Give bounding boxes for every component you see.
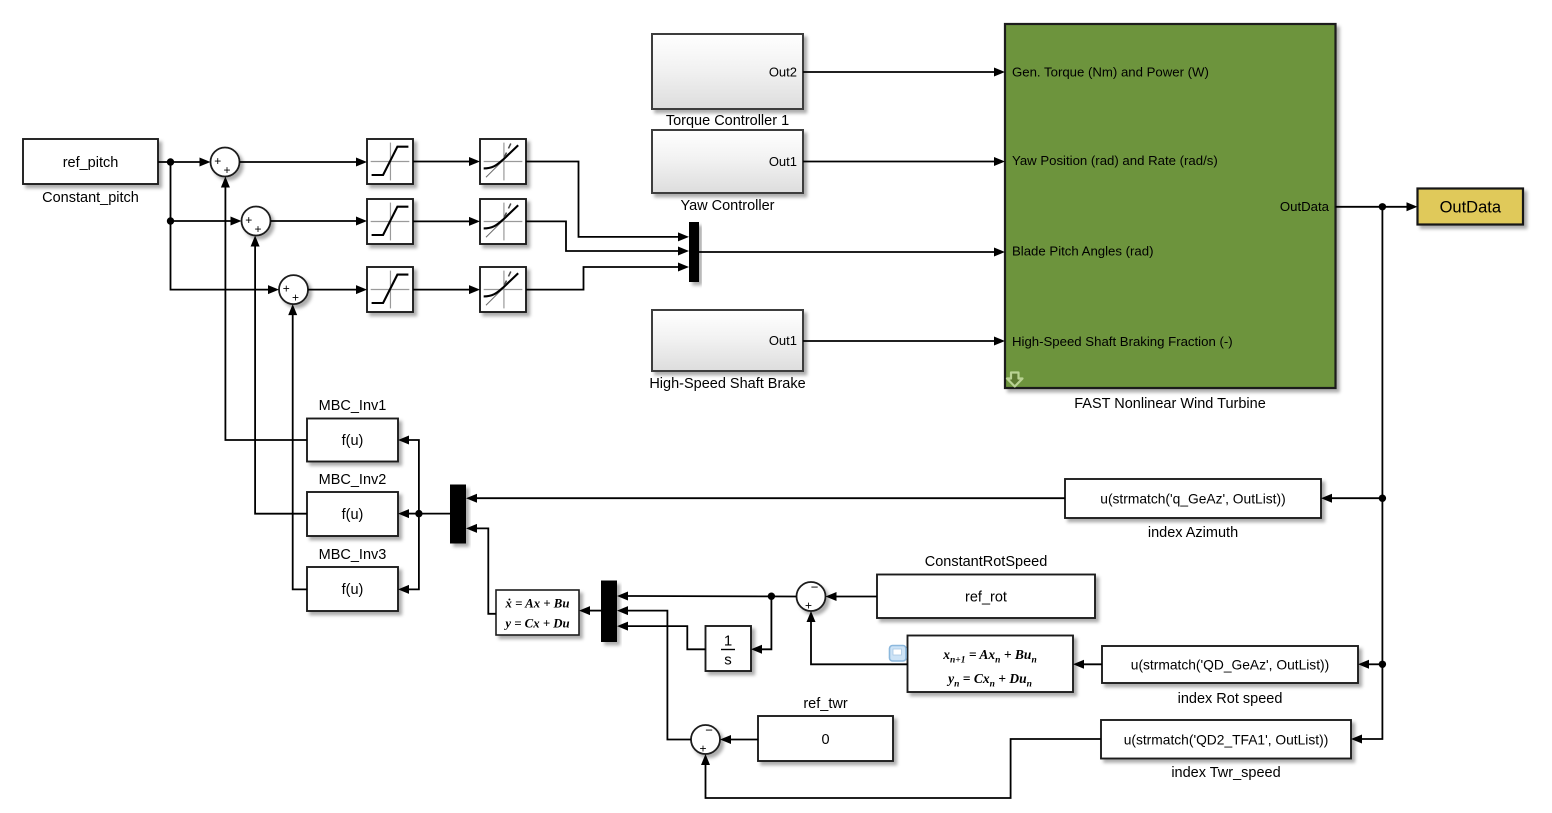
svg-text:1: 1 (724, 633, 732, 650)
mux Mux1 (689, 222, 699, 282)
wire branch to MBC_Inv3 input (398, 514, 419, 594)
wire Mux1 to FAST Blade Pitch input (699, 248, 1005, 257)
svg-text:+: + (292, 291, 299, 305)
wire DiscreteStateSpace to SumRot (807, 611, 908, 664)
junction SumRot out branch (768, 593, 775, 600)
svg-text:+: + (223, 163, 230, 177)
svg-text:y = Cx + Du: y = Cx + Du (503, 617, 569, 631)
wire ref_rot to SumRot (826, 592, 878, 601)
svg-text:index Rot speed: index Rot speed (1178, 691, 1283, 707)
fcn index Twr_speed (1101, 720, 1351, 781)
svg-text:+: + (699, 742, 706, 756)
fcn index Rot speed (1102, 646, 1358, 707)
wire SumRot to Mux3 (617, 592, 797, 601)
svg-text:−: − (811, 580, 819, 595)
svg-text:f(u): f(u) (342, 433, 364, 449)
wire index Azimuth to Mux2 (466, 494, 1065, 503)
junction OutData branch (1379, 203, 1386, 210)
svg-text:Blade Pitch Angles (rad): Blade Pitch Angles (rad) (1012, 244, 1153, 259)
sum Sum2 (242, 207, 271, 237)
svg-text:f(u): f(u) (342, 582, 364, 598)
fcn MBC_Inv2 (307, 472, 398, 536)
wire Mux3 to StateSpace (579, 606, 601, 615)
wire ref_twr to SumTwr (720, 735, 758, 744)
rate limiter RateLimiter1 (480, 139, 526, 184)
svg-text:−: − (705, 723, 713, 738)
svg-text:OutData: OutData (1440, 199, 1502, 217)
fcn MBC_Inv1 (307, 398, 398, 462)
wire Sum3 to Saturation3 (308, 285, 367, 294)
svg-text:High-Speed Shaft Brake: High-Speed Shaft Brake (649, 376, 805, 392)
svg-text:Torque Controller 1: Torque Controller 1 (666, 113, 789, 129)
svg-text:+: + (254, 222, 261, 236)
wire Sum2 to Saturation2 (271, 217, 368, 226)
saturation Saturation1 (367, 139, 413, 184)
fcn MBC_Inv3 (307, 547, 398, 611)
svg-text:Yaw Controller: Yaw Controller (680, 198, 774, 214)
wire SumTwr to Mux3 (617, 606, 691, 739)
subsystem Torque Controller 1 (652, 34, 803, 129)
state-space StateSpace (496, 590, 579, 635)
integrator Integrator (706, 626, 752, 671)
saturation Saturation3 (367, 267, 413, 312)
sum Sum3 (279, 275, 308, 305)
svg-text:ref_rot: ref_rot (965, 590, 1007, 606)
wire SumRot branch to Integrator (751, 596, 771, 654)
mux Mux2 (450, 485, 466, 544)
badge sample-time indicator (890, 646, 907, 662)
wire FAST OutData to OutData block (1336, 202, 1418, 211)
wire Sum1 to Saturation1 (240, 158, 368, 167)
wire OutData trunk down (1351, 207, 1382, 744)
svg-text:MBC_Inv1: MBC_Inv1 (319, 398, 387, 414)
svg-text:index Azimuth: index Azimuth (1148, 525, 1238, 541)
subsystem High-Speed Shaft Brake (649, 310, 805, 392)
svg-text:index Twr_speed: index Twr_speed (1171, 765, 1280, 781)
rate limiter RateLimiter2 (480, 199, 526, 244)
junction trunk to index Azimuth (1379, 495, 1386, 502)
wire branch to MBC_Inv2 input (398, 509, 419, 518)
wire ref_pitch branch to Sum3 (171, 221, 280, 294)
block ref_twr (0 constant) (758, 696, 893, 761)
wire Mux2 to Fcn inputs trunk (419, 513, 450, 515)
wire Saturation2 to RateLimiter2 (413, 217, 480, 226)
svg-text:+: + (283, 282, 290, 296)
block OutData (To Workspace) (1418, 189, 1524, 225)
svg-text:u(strmatch('QD2_TFA1', OutList: u(strmatch('QD2_TFA1', OutList)) (1124, 733, 1329, 748)
svg-text:0: 0 (821, 732, 829, 748)
sum SumTwr (691, 723, 720, 756)
wire ref_pitch branch to Sum2 (171, 162, 242, 226)
sum Sum1 (211, 148, 240, 178)
wire branch to MBC_Inv1 input (398, 436, 419, 514)
svg-text:Out1: Out1 (769, 154, 797, 169)
wire Torque Controller Out2 to FAST (803, 68, 1005, 77)
svg-text:ref_twr: ref_twr (803, 696, 847, 712)
wire MBC_Inv3 to Sum3 (288, 304, 307, 589)
wire Saturation3 to RateLimiter3 (413, 285, 480, 294)
subsystem Yaw Controller (652, 130, 803, 214)
wire ref_pitch to Sum1 (158, 158, 211, 167)
wire HSS Brake Out1 to FAST (803, 337, 1005, 346)
svg-text:Out1: Out1 (769, 333, 797, 348)
svg-text:MBC_Inv3: MBC_Inv3 (319, 547, 387, 563)
wire Integrator to Mux3 (617, 622, 706, 650)
svg-text:f(u): f(u) (342, 507, 364, 523)
svg-text:Yaw Position (rad) and Rate (r: Yaw Position (rad) and Rate (rad/s) (1012, 153, 1218, 168)
junction Mux2 branch (415, 510, 422, 517)
junction trunk to index Rot speed (1379, 661, 1386, 668)
wire trunk to index Azimuth (1321, 494, 1382, 503)
svg-text:u(strmatch('q_GeAz', OutList)): u(strmatch('q_GeAz', OutList)) (1100, 492, 1285, 507)
svg-text:Constant_pitch: Constant_pitch (42, 190, 139, 206)
wire index Rot speed to DiscreteStateSpace (1073, 660, 1102, 669)
svg-text:ConstantRotSpeed: ConstantRotSpeed (925, 554, 1048, 570)
svg-text:s: s (724, 652, 732, 669)
wire RateLimiter3 to Mux1 (526, 263, 689, 290)
wire Yaw Controller Out1 to FAST (803, 157, 1005, 166)
rate limiter RateLimiter3 (480, 267, 526, 312)
block ConstantRotSpeed (ref_rot) (877, 554, 1095, 618)
svg-text:u(strmatch('QD_GeAz', OutList): u(strmatch('QD_GeAz', OutList)) (1131, 658, 1329, 673)
svg-text:MBC_Inv2: MBC_Inv2 (319, 472, 387, 488)
wire trunk to index Rot speed (1358, 660, 1382, 669)
svg-text:Gen. Torque (Nm) and Power (W): Gen. Torque (Nm) and Power (W) (1012, 65, 1209, 80)
wire StateSpace to Mux2 (466, 524, 496, 614)
wire MBC_Inv2 to Sum2 (251, 236, 307, 514)
saturation Saturation2 (367, 199, 413, 244)
wire RateLimiter1 to Mux1 (526, 162, 689, 242)
svg-text:ẋ = Ax + Bu: ẋ = Ax + Bu (505, 597, 570, 611)
fcn index Azimuth (1065, 479, 1321, 541)
svg-text:+: + (214, 154, 221, 168)
junction ref_pitch branch 1 (167, 158, 174, 165)
state-space DiscreteStateSpace (908, 636, 1074, 693)
junction ref_pitch branch 2 (167, 217, 174, 224)
sum SumRot (797, 580, 826, 613)
subsystem FAST Nonlinear Wind Turbine (1005, 24, 1336, 412)
svg-text:+: + (805, 599, 812, 613)
mux Mux3 (601, 581, 617, 643)
svg-text:OutData: OutData (1280, 199, 1330, 214)
svg-text:Out2: Out2 (769, 65, 797, 80)
wire MBC_Inv1 to Sum1 (221, 177, 307, 441)
wire Saturation1 to RateLimiter1 (413, 157, 480, 166)
wire index Twr_speed to SumTwr (701, 739, 1101, 798)
svg-text:+: + (245, 213, 252, 227)
svg-text:FAST Nonlinear Wind Turbine: FAST Nonlinear Wind Turbine (1074, 396, 1266, 412)
svg-text:ref_pitch: ref_pitch (63, 155, 119, 171)
svg-text:High-Speed Shaft Braking Fract: High-Speed Shaft Braking Fraction (-) (1012, 334, 1233, 349)
block Constant_pitch (ref_pitch constant) (23, 139, 158, 206)
wire RateLimiter2 to Mux1 (526, 221, 689, 255)
